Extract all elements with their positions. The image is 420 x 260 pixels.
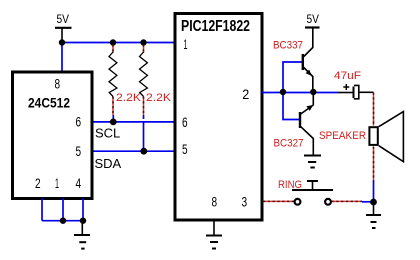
svg-text:5V: 5V [307,14,320,26]
resistor R1 stub bottom (red) [112,97,114,120]
ground below BC327 [304,156,321,168]
svg-text:4: 4 [76,176,82,191]
svg-text:BC327: BC327 [274,138,304,150]
wire PIC pin 2 output node [262,92,338,94]
svg-text:47uF: 47uF [334,70,361,82]
wire: +5V rail to PIC pin 1 [62,42,174,44]
wire switch to ground node (red) [332,200,363,202]
svg-text:2: 2 [35,176,41,191]
power +5V supply right [305,14,320,28]
junction node SCL/R1 [110,119,117,126]
pushbutton switch S1 [292,181,333,205]
capacitor C1 47uF [343,84,359,99]
svg-text:24C512: 24C512 [28,96,70,111]
junction node base drive [280,89,286,95]
wire U2 pin 1 down [62,198,64,221]
transistor Q1 BC337 [303,27,313,92]
svg-text:6: 6 [182,115,188,130]
svg-text:2.2K: 2.2K [146,92,172,104]
transistor Q2 BC327 [300,94,313,155]
junction node resistor R1 top [110,39,116,45]
wire SCL net [91,121,174,123]
svg-text:SPEAKER: SPEAKER [319,130,366,142]
ground at speaker return [366,202,381,228]
resistor R2 2.2K body [140,52,148,97]
junction node SDA/R2 [140,148,147,155]
resistor R1 stub top (red) [112,45,114,54]
wire PIC pin 3 to switch (red) [263,200,294,202]
wire down to speaker (red) [373,93,375,180]
wire U2 pin 2 down [41,198,43,221]
IC U1 PIC12F1822 body [175,14,262,221]
svg-text:5: 5 [76,144,82,159]
resistor R2 stub top (red) [143,45,145,54]
svg-text:6: 6 [76,115,82,130]
svg-text:BC337: BC337 [273,40,303,52]
svg-text:3: 3 [242,195,248,210]
wire into ground node (blue) [362,201,374,203]
junction node resistor R2 top [140,39,146,45]
wire speaker bottom (blue) [373,180,375,202]
ground below PIC pin 8 [206,220,222,249]
resistor R1 2.2K body [109,52,117,97]
svg-text:8: 8 [55,77,61,92]
junction node speaker return [370,199,377,206]
wire U2 pin 4 down [82,198,84,221]
svg-text:5V: 5V [57,14,70,26]
svg-text:2: 2 [242,87,249,102]
wire capacitor to speaker corner [360,91,374,93]
junction node pin1 bottom [60,218,66,224]
wire base drive to BC327 [283,92,300,120]
junction node at 5V rail [59,39,65,45]
wire R2 bottom to SDA [143,122,145,151]
svg-text:PIC12F1822: PIC12F1822 [181,18,250,35]
svg-text:1: 1 [55,176,59,191]
ground below 24C512 [74,221,90,249]
speaker LS1 [369,112,403,162]
junction node pin4 bottom [80,218,86,224]
svg-text:2.2K: 2.2K [116,92,142,104]
resistor R2 stub bottom (red) [143,97,145,120]
junction node output/emitters [310,89,316,95]
wire joining U2 bottom pins [42,220,83,222]
IC U2 24C512 body [13,72,93,199]
wire: +5V to 24C512 pin 8 [61,43,63,72]
svg-text:1: 1 [184,37,188,52]
svg-text:8: 8 [212,195,218,210]
wire SDA net [91,150,174,152]
power +5V supply left [55,14,72,42]
svg-text:SCL: SCL [95,126,120,141]
wire base drive to BC337 [283,62,302,92]
svg-text:SDA: SDA [95,156,122,171]
svg-text:5: 5 [182,142,188,157]
